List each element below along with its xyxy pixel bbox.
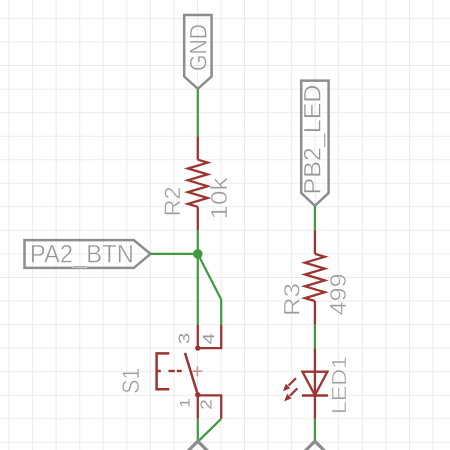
supply flag bottom left (clipped) [187,441,208,450]
net label flag PA2_BTN [25,240,151,268]
svg-text:2: 2 [198,399,215,410]
movable contact cross [193,366,203,376]
cathode bar [302,394,328,397]
pin 4 lead [199,325,222,349]
wire S1 pin 1 to bottom flag [197,419,199,442]
net label flag PB2_LED [301,81,328,206]
supply flag bottom right (clipped) [304,441,325,450]
wire S1 pin 2 diagonal to bottom flag [198,419,221,442]
pin 2 lead [198,395,221,418]
wire PA2_BTN to junction [150,253,198,255]
emission arrow 1 [283,378,296,391]
supply flag GND [184,15,211,89]
svg-text:R2: R2 [160,186,185,216]
wire R3 to LED1 [314,325,316,349]
wire junction to S1 pin 3 [197,254,199,325]
actuator bracket [157,353,170,389]
switch S1 [157,325,222,419]
svg-text:1: 1 [178,398,193,408]
resistor R3 [305,230,325,324]
lever [185,353,198,395]
LED LED1 [283,348,328,419]
anode lead [314,348,316,395]
actuator dashed link [157,370,161,372]
wire GND to R2 [197,89,199,136]
bottom contact dot [195,392,200,397]
triangle [302,372,327,396]
cathode lead [314,395,316,419]
svg-text:PB2_LED: PB2_LED [300,85,327,195]
pin 1 lead [197,395,199,419]
resistor R2 [188,136,208,230]
wire PB2_LED to R3 [314,206,316,230]
pin 3 lead [197,325,199,349]
svg-text:R3: R3 [279,283,304,316]
wire R2 to junction [197,230,199,254]
wire junction diagonal to S1 pin 4 [198,254,221,325]
top contact dot [195,345,200,350]
svg-text:3: 3 [176,333,193,344]
svg-text:LED1: LED1 [328,356,351,414]
svg-text:10k: 10k [206,177,232,220]
emission arrow 2 [284,388,297,401]
wire LED1 to bottom flag [314,419,316,442]
svg-text:PA2_BTN: PA2_BTN [30,240,134,268]
svg-text:499: 499 [325,273,351,315]
svg-text:4: 4 [201,333,218,345]
svg-text:S1: S1 [118,368,145,394]
junction dot [193,249,203,259]
svg-text:GND: GND [186,24,213,71]
